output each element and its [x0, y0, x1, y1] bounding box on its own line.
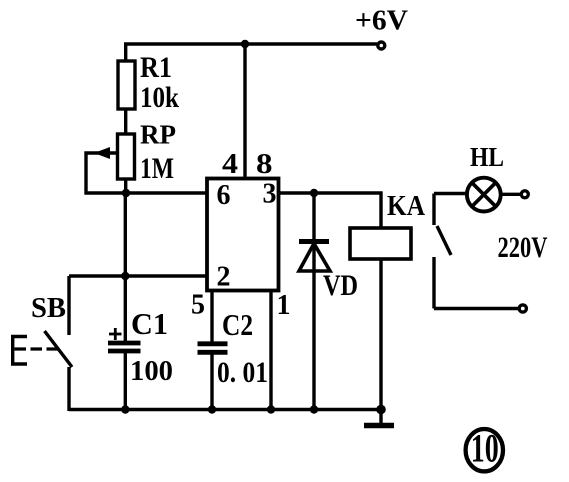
- node: VD on ground rail: [310, 405, 318, 413]
- svg-text:C1: C1: [131, 306, 168, 341]
- node: pin1 on ground rail: [267, 405, 275, 413]
- label SB: [31, 293, 66, 324]
- node: junction pin3/diode: [310, 189, 318, 197]
- wire: bottom ground rail: [69, 408, 384, 411]
- wire: pins 4,8 to supply rail: [243, 44, 246, 179]
- ground: [364, 410, 394, 426]
- svg-text:VD: VD: [323, 269, 358, 302]
- node: +6V supply terminal: [378, 42, 385, 49]
- pin 4 label: [222, 148, 238, 180]
- value 10k: [140, 81, 179, 114]
- svg-text:1: 1: [277, 290, 291, 321]
- svg-text:2: 2: [217, 262, 231, 293]
- potentiometer RP: [86, 134, 135, 193]
- node: junction on supply rail: [241, 40, 249, 48]
- wire: rail to R1 top: [124, 44, 127, 61]
- svg-text:4: 4: [222, 148, 238, 180]
- svg-text:10k: 10k: [140, 81, 179, 114]
- resistor R1: [118, 61, 135, 109]
- node: junction R1/RP with pins 6,2 net: [122, 189, 130, 197]
- wire: +6V top supply rail: [124, 42, 377, 45]
- wire: vertical node to pin-2 rail: [124, 193, 127, 276]
- svg-text:RP: RP: [140, 120, 176, 150]
- node: contact lower terminal: [519, 305, 526, 312]
- relay coil KA: [350, 228, 411, 259]
- node: junction pin2/C1: [121, 272, 129, 280]
- wire: relay coil to ground rail: [379, 259, 382, 410]
- wire: pin 1 to ground rail: [269, 291, 272, 412]
- svg-text:SB: SB: [31, 293, 66, 324]
- node: relay on ground rail: [376, 405, 386, 415]
- svg-text:R1: R1: [140, 51, 172, 84]
- label 220V: [498, 231, 548, 264]
- svg-text:C2: C2: [222, 307, 253, 342]
- node: C2 on ground rail: [208, 405, 216, 413]
- label HL: [470, 142, 504, 172]
- svg-text:KA: KA: [387, 191, 426, 222]
- capacitor C2: [198, 344, 228, 411]
- label C2: [222, 307, 253, 342]
- svg-text:0. 01: 0. 01: [217, 356, 268, 389]
- wire: node to pin 6: [126, 191, 207, 194]
- svg-text:8: 8: [256, 148, 273, 180]
- node: C1 on ground rail: [121, 405, 129, 413]
- lamp HL: [434, 178, 521, 212]
- svg-text:HL: HL: [470, 142, 504, 172]
- pin 5 label: [191, 290, 205, 321]
- IC 555 timer body: [207, 179, 279, 291]
- wire: pin 3 output to relay branch: [279, 193, 382, 228]
- wire: RP bottom to node: [124, 179, 127, 193]
- svg-text:5: 5: [191, 290, 205, 321]
- pin 8 label: [256, 148, 273, 180]
- label +6V: [355, 6, 408, 37]
- svg-text:3: 3: [263, 179, 277, 210]
- label VD: [323, 269, 358, 302]
- pin 6 label: [217, 180, 231, 211]
- svg-text:10: 10: [471, 426, 499, 471]
- label RP: [140, 120, 176, 150]
- svg-text:+6V: +6V: [355, 6, 408, 37]
- pin 1 label: [277, 290, 291, 321]
- wire: pin 5 to C2: [210, 291, 213, 343]
- value 100: [130, 355, 173, 387]
- pin 3 label: [263, 179, 277, 210]
- value 1M: [140, 152, 174, 185]
- svg-text:6: 6: [217, 180, 231, 211]
- svg-text:100: 100: [130, 355, 173, 387]
- label C1: [131, 306, 168, 341]
- value 0.01: [217, 356, 268, 389]
- diode VD: [299, 193, 330, 411]
- pin 2 label: [217, 262, 231, 293]
- switch: relay contact KA: [434, 194, 519, 309]
- wire: R1 to RP: [124, 109, 127, 134]
- capacitor C1 electrolytic: [108, 276, 141, 411]
- node: lamp right terminal: [521, 191, 528, 198]
- switch SB pushbutton: [13, 276, 72, 411]
- svg-text:220V: 220V: [498, 231, 548, 264]
- label KA: [387, 191, 426, 222]
- wire: pin 2 net horizontal: [69, 274, 207, 277]
- label R1: [140, 51, 172, 84]
- svg-text:1M: 1M: [140, 152, 174, 185]
- figure number 10: [466, 429, 503, 471]
